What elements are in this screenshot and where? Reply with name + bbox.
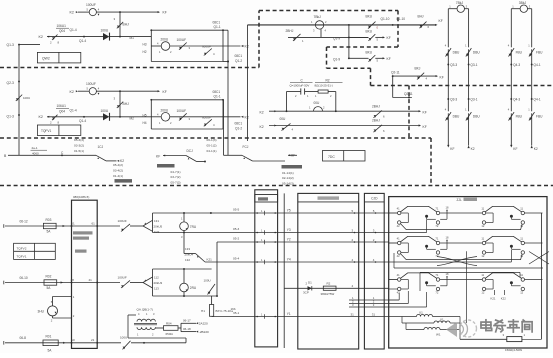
svg-text:20kU3: 20kU3 — [154, 281, 163, 285]
svg-text:TQFV1: TQFV1 — [41, 129, 51, 133]
svg-text:BX'C-75-1Ka: BX'C-75-1Ka — [216, 309, 234, 313]
svg-text:H2: H2 — [143, 50, 147, 54]
svg-text:R2: R2 — [326, 78, 330, 82]
svg-text:KF: KF — [513, 147, 517, 151]
svg-text:01-5(1): 01-5(1) — [74, 149, 84, 153]
svg-text:2BHJ: 2BHJ — [372, 118, 380, 122]
svg-text:05-3: 05-3 — [233, 227, 239, 231]
svg-text:11: 11 — [481, 273, 484, 277]
svg-text:133: 133 — [185, 247, 190, 251]
svg-text:K2: K2 — [245, 45, 249, 49]
svg-text:Q4-3: Q4-3 — [513, 98, 520, 102]
svg-text:05-5: 05-5 — [233, 208, 239, 212]
svg-text:12: 12 — [481, 291, 484, 295]
svg-text:71: 71 — [435, 237, 438, 241]
svg-text:11: 11 — [481, 237, 484, 241]
svg-text:00U: 00U — [314, 101, 321, 105]
svg-text:41: 41 — [89, 278, 93, 282]
svg-text:K21: K21 — [207, 257, 213, 261]
svg-text:100UF: 100UF — [118, 276, 127, 280]
svg-text:51: 51 — [71, 221, 75, 225]
svg-text:H1: H1 — [201, 309, 205, 313]
svg-text:71: 71 — [435, 207, 438, 211]
svg-text:72: 72 — [435, 254, 438, 258]
svg-text:Y5: Y5 — [287, 208, 291, 212]
svg-text:086(1086-5): 086(1086-5) — [73, 195, 89, 199]
svg-text:TQFV2: TQFV2 — [17, 246, 27, 250]
svg-text:Q1-9: Q1-9 — [333, 36, 340, 40]
svg-text:H3: H3 — [143, 43, 147, 47]
svg-text:150Ω(4-50W: 150Ω(4-50W — [505, 348, 522, 352]
svg-text:BKJ: BKJ — [415, 66, 421, 70]
svg-text:42: 42 — [397, 254, 400, 258]
svg-text:Q04: Q04 — [59, 109, 65, 113]
svg-text:4060: 4060 — [32, 152, 39, 156]
svg-text:Q2-11: Q2-11 — [404, 92, 413, 96]
svg-text:03-7(2): 03-7(2) — [171, 175, 181, 179]
svg-text:106U1: 106U1 — [57, 104, 67, 108]
svg-text:TQFV1: TQFV1 — [17, 255, 27, 259]
svg-text:K2: K2 — [260, 111, 264, 115]
svg-text:2RU: 2RU — [190, 286, 197, 290]
svg-text:100U: 100U — [101, 109, 109, 113]
svg-text:Y4: Y4 — [287, 257, 291, 261]
svg-text:100UF: 100UF — [86, 82, 96, 86]
svg-text:K23: K23 — [154, 230, 160, 234]
svg-text:31: 31 — [372, 312, 376, 316]
svg-text:05-2: 05-2 — [233, 236, 239, 240]
svg-text:KF: KF — [387, 57, 391, 61]
svg-text:FCJ: FCJ — [243, 145, 249, 149]
svg-text:8Ω(10-25-51-): 8Ω(10-25-51-) — [315, 84, 333, 88]
svg-text:2BHJ: 2BHJ — [286, 29, 294, 33]
svg-text:42: 42 — [397, 291, 400, 295]
svg-text:06-17: 06-17 — [183, 319, 191, 323]
svg-text:7BkJ: 7BkJ — [314, 15, 322, 19]
svg-text:R2: R2 — [327, 282, 331, 286]
svg-text:11: 11 — [481, 207, 484, 211]
svg-text:B1-10: B1-10 — [397, 17, 406, 21]
svg-text:41: 41 — [397, 207, 400, 211]
svg-text:R03: R03 — [46, 218, 52, 222]
svg-text:600UF: 600UF — [202, 115, 211, 119]
svg-text:KF: KF — [423, 111, 427, 115]
svg-text:K22: K22 — [501, 297, 506, 301]
svg-text:KF: KF — [440, 76, 444, 80]
svg-text:K2: K2 — [534, 147, 538, 151]
svg-text:Q3-1: Q3-1 — [470, 63, 477, 67]
svg-text:3HU: 3HU — [38, 309, 45, 313]
svg-text:Q4-1: Q4-1 — [534, 98, 541, 102]
svg-text:100U: 100U — [204, 278, 211, 282]
svg-text:100UF: 100UF — [86, 3, 96, 7]
svg-text:Q1-3: Q1-3 — [7, 43, 14, 47]
svg-text:10: 10 — [71, 338, 75, 342]
svg-text:DBU: DBU — [453, 115, 460, 119]
svg-text:02-14(2): 02-14(2) — [282, 176, 294, 180]
svg-text:600UF: 600UF — [202, 45, 211, 49]
svg-text:Q1-2: Q1-2 — [235, 126, 242, 130]
svg-text:D1: D1 — [308, 281, 312, 285]
svg-text:FBU: FBU — [536, 51, 543, 55]
svg-text:FBU: FBU — [516, 115, 523, 119]
svg-text:DBU: DBU — [473, 51, 480, 55]
svg-text:12: 12 — [481, 224, 484, 228]
svg-text:K2: K2 — [471, 147, 475, 151]
svg-text:3BkJ: 3BkJ — [519, 1, 527, 5]
svg-text:KF: KF — [439, 19, 443, 23]
svg-text:W1: W1 — [436, 332, 441, 336]
svg-text:100U: 100U — [120, 335, 127, 339]
svg-text:-2B220: -2B220 — [199, 330, 209, 334]
svg-text:Q4-3: Q4-3 — [513, 63, 520, 67]
svg-text:Q3-1: Q3-1 — [470, 98, 477, 102]
svg-text:M2: M2 — [130, 116, 135, 120]
svg-text:04-7(1): 04-7(1) — [171, 170, 181, 174]
svg-text:Q1-4: Q1-4 — [70, 108, 77, 112]
svg-text:Q1-4: Q1-4 — [79, 39, 86, 43]
svg-text:K2: K2 — [39, 35, 43, 39]
svg-text:K2: K2 — [70, 90, 74, 94]
svg-text:Q1-1: Q1-1 — [214, 25, 221, 29]
svg-text:BKU: BKU — [366, 15, 373, 19]
svg-text:QA.QB(1-7): QA.QB(1-7) — [137, 308, 153, 312]
svg-text:41: 41 — [397, 273, 400, 277]
svg-text:R04: R04 — [166, 321, 172, 325]
svg-text:Q1-3: Q1-3 — [7, 115, 14, 119]
svg-text:08C1: 08C1 — [235, 121, 243, 125]
svg-text:05-4: 05-4 — [233, 257, 239, 261]
svg-text:05-14(3): 05-14(3) — [282, 182, 294, 186]
svg-text:650Ω: 650Ω — [166, 332, 174, 336]
svg-text:H5: H5 — [143, 113, 147, 117]
svg-text:KF: KF — [163, 11, 167, 15]
svg-text:R02: R02 — [46, 275, 52, 279]
svg-text:106U1: 106U1 — [57, 24, 67, 28]
svg-text:DCJ: DCJ — [187, 149, 194, 153]
svg-text:05-4(2): 05-4(2) — [113, 163, 123, 167]
svg-text:31: 31 — [351, 312, 355, 316]
svg-text:K2: K2 — [70, 11, 74, 15]
svg-text:06-10: 06-10 — [20, 276, 28, 280]
svg-text:05-1(2): 05-1(2) — [207, 144, 217, 148]
svg-text:Q04: Q04 — [59, 29, 65, 33]
svg-text:M1: M1 — [130, 36, 135, 40]
svg-text:2BHJ: 2BHJ — [372, 105, 380, 109]
svg-text:Q3-3: Q3-3 — [450, 63, 457, 67]
svg-text:3CP: 3CP — [303, 290, 309, 294]
svg-text:08C1: 08C1 — [213, 90, 221, 94]
svg-text:100U: 100U — [23, 96, 30, 100]
svg-text:04-1(1): 04-1(1) — [207, 149, 217, 153]
svg-text:41: 41 — [397, 237, 400, 241]
svg-text:06-8: 06-8 — [20, 336, 27, 340]
svg-text:Q2-3: Q2-3 — [7, 81, 14, 85]
svg-text:131: 131 — [154, 219, 159, 223]
svg-text:72: 72 — [435, 224, 438, 228]
svg-text:BHJ: BHJ — [123, 22, 130, 26]
svg-text:71: 71 — [435, 273, 438, 277]
svg-text:2a-1: 2a-1 — [32, 146, 38, 150]
svg-text:01-4(1): 01-4(1) — [113, 174, 123, 178]
svg-text:7RU: 7RU — [190, 225, 197, 229]
svg-text:380Ω/75W: 380Ω/75W — [321, 292, 335, 296]
svg-text:42: 42 — [397, 224, 400, 228]
svg-text:K21: K21 — [491, 297, 496, 301]
svg-text:1CJ: 1CJ — [98, 145, 104, 149]
svg-text:100U: 100U — [101, 29, 109, 33]
svg-text:QW2: QW2 — [42, 57, 50, 61]
svg-text:ZJL: ZJL — [457, 198, 463, 202]
svg-text:06-12: 06-12 — [20, 219, 28, 223]
svg-text:7BkJ: 7BkJ — [456, 1, 464, 5]
svg-text:K2: K2 — [260, 125, 264, 129]
svg-text:113: 113 — [154, 287, 159, 291]
svg-text:Q4-1: Q4-1 — [534, 63, 541, 67]
svg-text:100UF: 100UF — [177, 38, 187, 42]
svg-text:KF: KF — [163, 90, 167, 94]
svg-text:20kU4: 20kU4 — [185, 253, 194, 257]
svg-text:K2: K2 — [39, 115, 43, 119]
svg-text:132: 132 — [185, 258, 190, 262]
svg-text:DBU: DBU — [473, 115, 480, 119]
svg-text:03-3(2): 03-3(2) — [74, 144, 84, 148]
svg-text:01-14(1): 01-14(1) — [282, 171, 294, 175]
svg-text:06-18: 06-18 — [183, 327, 191, 331]
svg-text:100UF: 100UF — [177, 109, 187, 113]
svg-text:BKU: BKU — [366, 29, 373, 33]
svg-text:BHJ: BHJ — [123, 102, 130, 106]
svg-text:Q1-1: Q1-1 — [214, 95, 221, 99]
svg-text:05-7(3): 05-7(3) — [171, 181, 181, 185]
svg-text:61: 61 — [92, 221, 96, 225]
svg-text:200U: 200U — [161, 38, 169, 42]
svg-text:12: 12 — [520, 291, 523, 295]
svg-text:KF: KF — [450, 147, 454, 151]
svg-text:06-1(3): 06-1(3) — [207, 138, 217, 142]
svg-text:CJD: CJD — [371, 197, 378, 201]
svg-text:H4: H4 — [143, 121, 147, 125]
svg-text:00U: 00U — [280, 117, 287, 121]
svg-text:2A220: 2A220 — [199, 322, 208, 326]
svg-text:08C1: 08C1 — [235, 54, 243, 58]
svg-text:Q1-4: Q1-4 — [70, 28, 77, 32]
svg-text:20kU5: 20kU5 — [154, 224, 163, 228]
svg-text:03-4(2): 03-4(2) — [113, 168, 123, 172]
svg-text:7DC: 7DC — [328, 155, 335, 159]
svg-text:Y3: Y3 — [287, 228, 291, 232]
svg-text:U1: U1 — [419, 311, 423, 315]
svg-text:Q=1000uF-50V: Q=1000uF-50V — [290, 84, 310, 88]
svg-text:100UF: 100UF — [118, 219, 127, 223]
svg-text:DBU: DBU — [453, 51, 460, 55]
svg-text:12: 12 — [481, 254, 484, 258]
svg-text:200U: 200U — [161, 108, 169, 112]
svg-text:Q2-11: Q2-11 — [391, 70, 400, 74]
svg-text:21: 21 — [91, 338, 95, 342]
svg-text:Y1: Y1 — [287, 312, 291, 316]
svg-text:Y2: Y2 — [287, 237, 291, 241]
svg-text:KF: KF — [156, 155, 160, 159]
svg-text:BKU: BKU — [366, 50, 373, 54]
svg-text:35-1: 35-1 — [233, 311, 239, 315]
svg-text:KF: KF — [423, 125, 427, 129]
svg-text:Q1-10: Q1-10 — [381, 17, 390, 21]
svg-text:Q1-9: Q1-9 — [333, 57, 340, 61]
svg-text:Q1-2: Q1-2 — [235, 59, 242, 63]
svg-text:K2: K2 — [245, 115, 249, 119]
svg-text:FBU: FBU — [516, 51, 523, 55]
svg-text:05-3(3): 05-3(3) — [74, 138, 84, 142]
svg-text:08C1: 08C1 — [213, 20, 221, 24]
svg-text:KF: KF — [387, 36, 391, 40]
svg-text:Q1-4: Q1-4 — [79, 119, 86, 123]
svg-text:112: 112 — [154, 276, 159, 280]
svg-text:FBU: FBU — [536, 115, 543, 119]
svg-text:R01: R01 — [46, 334, 52, 338]
svg-text:Q3-3: Q3-3 — [450, 98, 457, 102]
svg-text:28: 28 — [71, 278, 75, 282]
svg-text:72: 72 — [435, 291, 438, 295]
svg-text:BHJ: BHJ — [418, 15, 424, 19]
